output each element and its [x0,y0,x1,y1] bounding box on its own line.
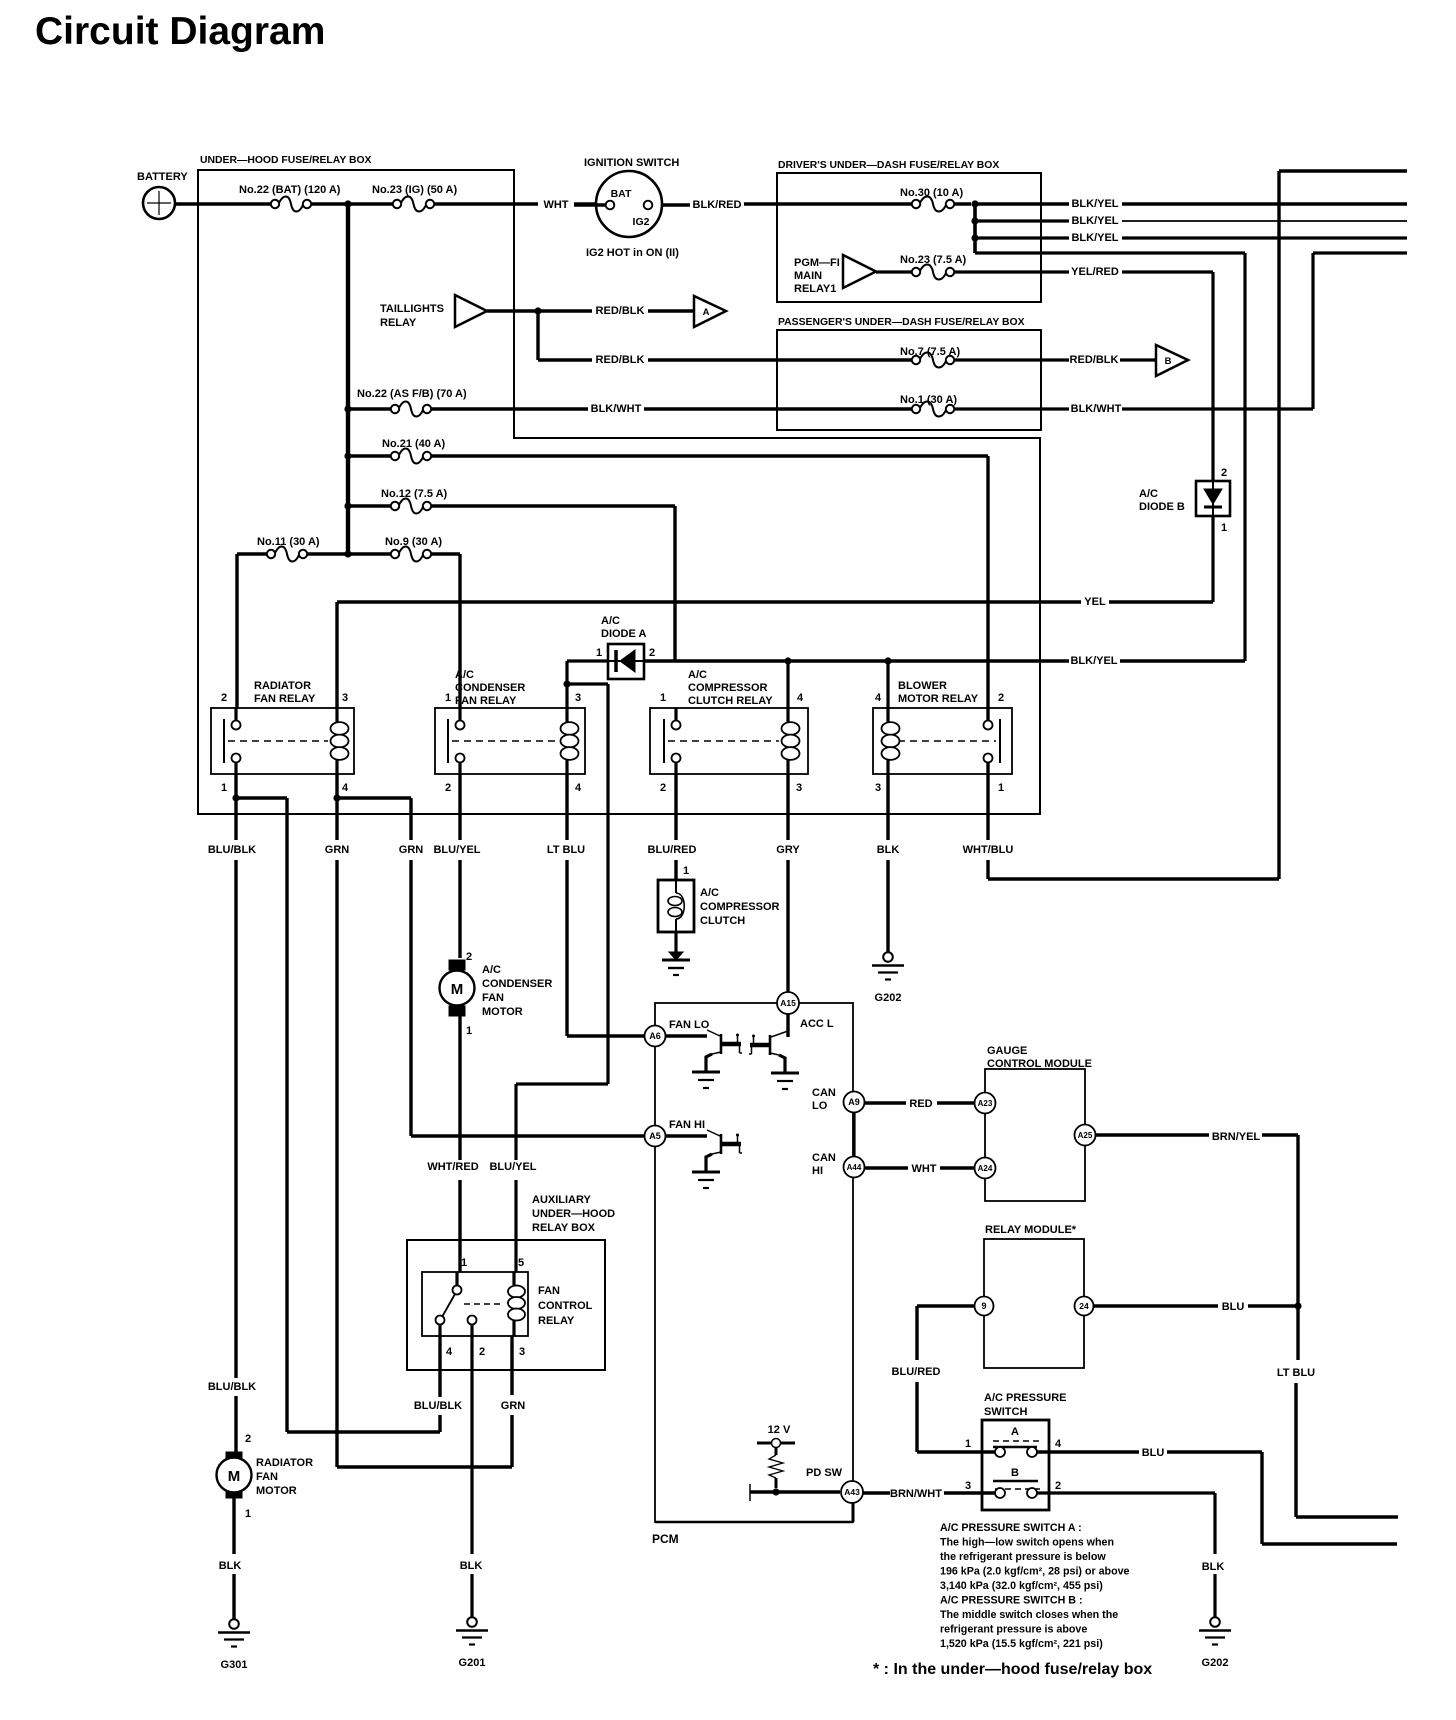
svg-text:the refrigerant pressure is be: the refrigerant pressure is below [940,1551,1106,1563]
svg-text:RELAY: RELAY [538,1315,575,1327]
svg-text:BAT: BAT [611,188,632,200]
svg-text:12 V: 12 V [768,1424,791,1436]
svg-text:COMPRESSOR: COMPRESSOR [700,901,780,913]
svg-text:BLU/BLK: BLU/BLK [208,844,256,856]
svg-text:A/C: A/C [482,964,501,976]
svg-text:A/C: A/C [688,669,707,681]
svg-text:LT BLU: LT BLU [1277,1367,1315,1379]
svg-text:CONTROL: CONTROL [538,1300,593,1312]
svg-text:FAN RELAY: FAN RELAY [455,695,517,707]
svg-text:3: 3 [519,1346,525,1358]
svg-text:GRY: GRY [776,844,800,856]
svg-text:A/C: A/C [700,887,719,899]
svg-text:DIODE A: DIODE A [601,628,646,640]
svg-text:3: 3 [575,692,581,704]
svg-text:DIODE B: DIODE B [1139,501,1185,513]
svg-text:24: 24 [1079,1301,1089,1311]
svg-text:BLU: BLU [1142,1447,1165,1459]
svg-text:No.22 (AS F/B) (70 A): No.22 (AS F/B) (70 A) [357,388,467,400]
svg-text:WHT: WHT [543,199,568,211]
svg-text:No.23 (7.5 A): No.23 (7.5 A) [900,254,967,266]
svg-text:2: 2 [445,782,451,794]
svg-text:BLK/YEL: BLK/YEL [1071,198,1118,210]
svg-text:BLK: BLK [1202,1561,1225,1573]
svg-text:1: 1 [1221,522,1227,534]
svg-text:FAN: FAN [482,992,504,1004]
svg-text:CONDENSER: CONDENSER [482,978,552,990]
svg-text:1: 1 [245,1508,251,1520]
svg-text:RADIATOR: RADIATOR [254,680,311,692]
svg-text:3: 3 [796,782,802,794]
svg-text:FAN RELAY: FAN RELAY [254,693,316,705]
svg-text:UNDER—HOOD: UNDER—HOOD [532,1208,615,1220]
svg-text:IGNITION SWITCH: IGNITION SWITCH [584,157,679,169]
svg-text:1: 1 [461,1257,467,1269]
svg-text:BLK/YEL: BLK/YEL [1070,655,1117,667]
svg-text:A25: A25 [1078,1131,1093,1140]
svg-text:2: 2 [649,647,655,659]
svg-text:G202: G202 [875,992,902,1004]
svg-text:RED: RED [909,1098,932,1110]
svg-text:FAN LO: FAN LO [669,1019,710,1031]
svg-text:A: A [703,307,710,318]
svg-text:1: 1 [965,1438,971,1450]
svg-text:1: 1 [660,692,666,704]
svg-text:BATTERY: BATTERY [137,171,188,183]
svg-text:BLK/RED: BLK/RED [693,199,742,211]
svg-text:GRN: GRN [501,1400,526,1412]
svg-text:refrigerant pressure is above: refrigerant pressure is above [940,1624,1087,1636]
svg-text:Circuit Diagram: Circuit Diagram [35,10,325,53]
svg-text:The middle switch closes when: The middle switch closes when the [940,1609,1118,1621]
svg-text:A44: A44 [847,1163,862,1172]
svg-text:YEL: YEL [1084,596,1106,608]
svg-text:GRN: GRN [399,844,424,856]
svg-text:WHT: WHT [911,1163,936,1175]
svg-text:1: 1 [221,782,227,794]
svg-text:2: 2 [221,692,227,704]
svg-text:BRN/WHT: BRN/WHT [890,1488,942,1500]
svg-text:BLK/YEL: BLK/YEL [1071,232,1118,244]
svg-text:BLU/RED: BLU/RED [892,1366,941,1378]
svg-text:A: A [1011,1426,1019,1438]
svg-text:No.12 (7.5 A): No.12 (7.5 A) [381,488,448,500]
svg-text:A/C: A/C [1139,488,1158,500]
svg-text:DRIVER'S UNDER—DASH FUSE/RELAY: DRIVER'S UNDER—DASH FUSE/RELAY BOX [778,160,999,171]
svg-text:G201: G201 [459,1657,486,1669]
svg-text:4: 4 [797,692,804,704]
svg-text:No.21 (40 A): No.21 (40 A) [382,438,446,450]
svg-text:2: 2 [1055,1480,1061,1492]
svg-text:BLU/BLK: BLU/BLK [414,1400,462,1412]
svg-text:BLOWER: BLOWER [898,680,947,692]
svg-text:A/C PRESSURE: A/C PRESSURE [984,1392,1067,1404]
svg-text:4: 4 [575,782,582,794]
svg-text:1: 1 [445,692,451,704]
svg-text:RADIATOR: RADIATOR [256,1457,313,1469]
svg-text:2: 2 [479,1346,485,1358]
svg-text:3,140 kPa (32.0 kgf/cm², 455 p: 3,140 kPa (32.0 kgf/cm², 455 psi) [940,1580,1103,1592]
svg-text:BLK: BLK [219,1560,242,1572]
svg-text:2: 2 [660,782,666,794]
svg-text:B: B [1165,356,1172,367]
svg-text:5: 5 [518,1257,524,1269]
svg-text:RELAY: RELAY [380,317,417,329]
svg-text:2: 2 [466,951,472,963]
svg-text:4: 4 [446,1346,453,1358]
svg-text:2: 2 [245,1433,251,1445]
svg-text:BLK/YEL: BLK/YEL [1071,215,1118,227]
svg-text:1: 1 [683,865,689,877]
svg-text:1: 1 [466,1025,472,1037]
svg-text:BLU/RED: BLU/RED [648,844,697,856]
svg-text:A9: A9 [848,1097,860,1107]
svg-text:MOTOR RELAY: MOTOR RELAY [898,693,979,705]
svg-text:CAN: CAN [812,1152,836,1164]
svg-text:G202: G202 [1202,1657,1229,1669]
svg-text:BLU/BLK: BLU/BLK [208,1381,256,1393]
svg-text:PGM—FI: PGM—FI [794,257,840,269]
svg-text:YEL/RED: YEL/RED [1071,266,1119,278]
svg-text:RED/BLK: RED/BLK [1070,354,1119,366]
svg-text:4: 4 [1055,1438,1062,1450]
svg-text:No.1 (30 A): No.1 (30 A) [900,394,957,406]
svg-text:A/C PRESSURE SWITCH A :: A/C PRESSURE SWITCH A : [940,1522,1082,1534]
svg-text:2: 2 [998,692,1004,704]
svg-text:WHT/BLU: WHT/BLU [963,844,1014,856]
svg-text:SWITCH: SWITCH [984,1406,1027,1418]
svg-text:PD SW: PD SW [806,1467,843,1479]
svg-text:BLU: BLU [1222,1301,1245,1313]
svg-text:A5: A5 [649,1131,661,1141]
svg-text:GAUGE: GAUGE [987,1045,1027,1057]
svg-text:CONDENSER: CONDENSER [455,682,525,694]
svg-text:M: M [228,1468,241,1485]
svg-text:4: 4 [342,782,349,794]
svg-text:AUXILIARY: AUXILIARY [532,1194,592,1206]
svg-text:HI: HI [812,1165,823,1177]
svg-text:MOTOR: MOTOR [482,1006,523,1018]
svg-text:LO: LO [812,1100,828,1112]
svg-text:A/C PRESSURE SWITCH B :: A/C PRESSURE SWITCH B : [940,1595,1083,1607]
svg-text:PCM: PCM [652,1532,679,1546]
svg-text:LT BLU: LT BLU [547,844,585,856]
svg-text:A15: A15 [780,998,796,1008]
svg-text:A/C: A/C [455,669,474,681]
svg-text:No.7 (7.5 A): No.7 (7.5 A) [900,346,960,358]
svg-text:RED/BLK: RED/BLK [596,305,645,317]
svg-text:3: 3 [965,1480,971,1492]
svg-text:196 kPa (2.0 kgf/cm², 28 psi): 196 kPa (2.0 kgf/cm², 28 psi) or above [940,1566,1130,1578]
svg-text:1,520 kPa (15.5 kgf/cm², 221 p: 1,520 kPa (15.5 kgf/cm², 221 psi) [940,1638,1103,1650]
svg-text:3: 3 [342,692,348,704]
svg-text:BRN/YEL: BRN/YEL [1212,1131,1261,1143]
svg-text:RELAY1: RELAY1 [794,283,836,295]
svg-text:4: 4 [875,692,882,704]
svg-text:GRN: GRN [325,844,350,856]
svg-text:IG2: IG2 [633,216,650,228]
svg-text:COMPRESSOR: COMPRESSOR [688,682,768,694]
svg-text:2: 2 [1221,467,1227,479]
svg-text:RELAY MODULE*: RELAY MODULE* [985,1224,1077,1236]
svg-text:1: 1 [998,782,1004,794]
svg-text:A24: A24 [978,1164,993,1173]
svg-text:RELAY BOX: RELAY BOX [532,1222,596,1234]
svg-text:M: M [451,981,464,998]
svg-text:CAN: CAN [812,1087,836,1099]
svg-text:No.30 (10 A): No.30 (10 A) [900,187,964,199]
svg-text:WHT/RED: WHT/RED [427,1161,478,1173]
svg-text:BLU/YEL: BLU/YEL [433,844,480,856]
svg-text:RED/BLK: RED/BLK [596,354,645,366]
svg-text:A23: A23 [978,1099,993,1108]
svg-text:A6: A6 [649,1031,661,1041]
svg-text:BLK/WHT: BLK/WHT [1071,403,1122,415]
svg-text:FAN: FAN [256,1471,278,1483]
svg-text:B: B [1011,1467,1019,1479]
svg-text:IG2 HOT in ON (II): IG2 HOT in ON (II) [586,247,679,259]
svg-text:No.9 (30 A): No.9 (30 A) [385,536,442,548]
svg-text:PASSENGER'S UNDER—DASH FUSE/RE: PASSENGER'S UNDER—DASH FUSE/RELAY BOX [778,317,1025,328]
svg-text:BLK/WHT: BLK/WHT [591,403,642,415]
svg-text:MAIN: MAIN [794,270,822,282]
svg-text:CLUTCH: CLUTCH [700,915,745,927]
svg-text:CONTROL MODULE: CONTROL MODULE [987,1058,1092,1070]
svg-text:TAILLIGHTS: TAILLIGHTS [380,303,444,315]
svg-text:9: 9 [981,1301,986,1311]
svg-text:CLUTCH RELAY: CLUTCH RELAY [688,695,773,707]
svg-text:* : In the under—hood fuse/rel: * : In the under—hood fuse/relay box [873,1661,1152,1678]
svg-text:3: 3 [875,782,881,794]
svg-text:MOTOR: MOTOR [256,1485,297,1497]
svg-text:A/C: A/C [601,615,620,627]
svg-text:The high—low switch opens when: The high—low switch opens when [940,1537,1114,1549]
svg-text:1: 1 [596,647,602,659]
svg-text:No.11 (30 A): No.11 (30 A) [257,536,320,548]
svg-text:No.22 (BAT) (120 A): No.22 (BAT) (120 A) [239,184,341,196]
svg-text:BLK: BLK [877,844,900,856]
svg-text:ACC L: ACC L [800,1018,834,1030]
svg-text:G301: G301 [221,1659,248,1671]
svg-text:FAN HI: FAN HI [669,1119,705,1131]
svg-text:FAN: FAN [538,1285,560,1297]
svg-text:A43: A43 [844,1487,860,1497]
svg-text:No.23 (IG) (50 A): No.23 (IG) (50 A) [372,184,457,196]
svg-text:BLK: BLK [460,1560,483,1572]
svg-text:UNDER—HOOD FUSE/RELAY BOX: UNDER—HOOD FUSE/RELAY BOX [200,155,372,166]
svg-text:BLU/YEL: BLU/YEL [489,1161,536,1173]
